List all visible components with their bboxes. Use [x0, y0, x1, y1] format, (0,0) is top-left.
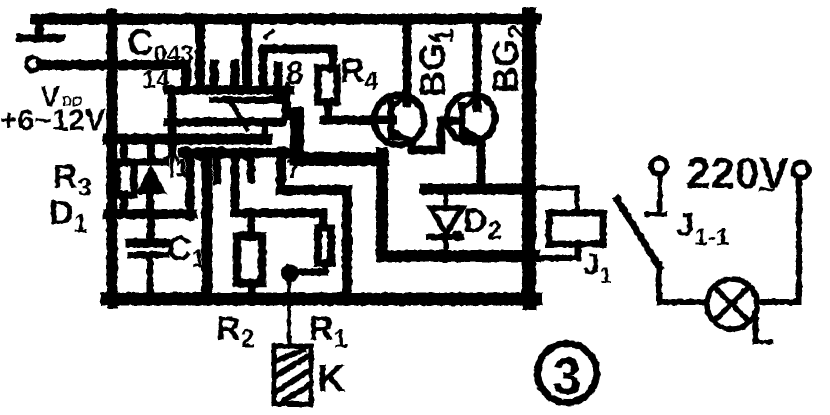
wire left terminal lead: [658, 175, 663, 213]
wire supply rail below IC: [108, 134, 267, 145]
svg-text:1: 1: [176, 155, 189, 181]
svg-text:+6~12V: +6~12V: [0, 104, 105, 137]
tick inside IC: [262, 122, 268, 141]
svg-text:14: 14: [142, 66, 170, 94]
wire pin 8 to R4: [263, 49, 333, 88]
wire lamp to right terminal: [758, 178, 799, 302]
capacitor C1 lead bottom: [147, 258, 154, 297]
node D2 dot: [452, 231, 463, 242]
wire BG2 emitter drop: [477, 140, 486, 188]
svg-text:8: 8: [286, 55, 304, 91]
relay J1 coil box: [549, 213, 603, 244]
svg-text:L: L: [750, 309, 774, 353]
wire bus to R1/R2 feed: [235, 153, 323, 227]
resistor R4 lead top is pin8 wire; R4 body: [318, 68, 337, 102]
transistor Q1 BG1: [374, 95, 424, 145]
resistor R2 body: [237, 236, 262, 283]
terminal VDD circle: [26, 57, 40, 71]
resistor R4 lead bottom: [324, 102, 332, 116]
wire blade to lamp: [659, 264, 706, 302]
speck near BG1 top: [430, 36, 436, 40]
diode D1 lead top: [147, 142, 155, 160]
wire BG1 emitter to BG2 base: [412, 121, 461, 150]
wire R4 to BG1 base: [324, 116, 392, 125]
pin stub 8 right thin: [286, 84, 291, 118]
switch J1-1 blade: [617, 199, 660, 268]
resistor R2 lead top: [247, 213, 255, 237]
battery plate bar: [20, 34, 61, 42]
wire top supply rail: [36, 14, 536, 25]
speck above pin8 wire: [266, 31, 273, 37]
svg-text:~: ~: [757, 171, 776, 207]
pin stub below bus short: [213, 155, 221, 181]
wire left border of circuit box: [107, 14, 118, 303]
switch fixed contact foot: [647, 212, 665, 217]
wire staircase down to relay feed: [382, 153, 534, 256]
terminal 220V right circle: [793, 162, 809, 178]
wire relay bottom lead: [536, 244, 578, 258]
pin stub top s5: [274, 66, 283, 92]
node pin dots on bus: [179, 146, 288, 161]
diode D2 cathode bar: [429, 234, 461, 240]
svg-text:K: K: [317, 357, 346, 401]
wire mid node R3 D1 C1: [108, 209, 192, 219]
diode D2 anode lead: [444, 194, 449, 209]
wire BG1 collector: [403, 19, 412, 102]
diode D2 triangle: [431, 208, 462, 234]
capacitor C1 plate top: [130, 239, 166, 248]
battery stub wire: [35, 19, 44, 32]
op-amp U1 C043 IC body: [168, 90, 290, 150]
resistor R1 body: [318, 228, 331, 263]
diode D1 triangle: [137, 166, 165, 193]
wire pin 7 to bottom: [281, 153, 347, 297]
wire ground vertical to bottom border: [202, 153, 213, 297]
pin 1 arrow mark: [165, 150, 177, 176]
pin stub top s2: [210, 64, 219, 90]
wire right border of circuit box: [522, 14, 536, 303]
diode D1 cathode bar: [136, 159, 166, 166]
wire relay top feed: [536, 188, 577, 212]
pin stub below bus short 2: [247, 155, 255, 179]
resistor R3 body: [117, 162, 134, 195]
wire IC right elbow: [297, 114, 382, 159]
wire drop A from rail: [195, 19, 205, 84]
wire BG2 collector: [473, 19, 482, 108]
resistor R3 leads: [120, 142, 128, 163]
pin stub top s3: [231, 64, 240, 90]
wire VDD to pin 14: [41, 65, 186, 88]
capacitor C1 plate bottom: [131, 252, 166, 259]
wire bottom border of circuit box: [107, 293, 536, 306]
wire dot to K plate: [287, 273, 291, 346]
diode D2 lead bottom: [444, 237, 449, 251]
capacitor C1 lead top: [147, 214, 155, 240]
wire pin 1 drop: [186, 153, 195, 216]
wire D2 top rail: [425, 184, 523, 195]
lamp L circle: [707, 279, 757, 329]
terminal 220V left circle: [651, 158, 667, 174]
touch plate K: [274, 346, 311, 404]
svg-text:7: 7: [286, 154, 301, 184]
transistor Q2 BG2: [447, 94, 495, 142]
svg-text:3: 3: [553, 348, 582, 406]
wire drop B from rail: [242, 19, 252, 88]
resistor R1 lead bottom: [292, 263, 325, 272]
figure number 3 circled: [538, 344, 597, 407]
squiggle inside IC: [229, 99, 247, 129]
wire bus with pin dots: [183, 148, 290, 158]
node junction dot to K: [281, 264, 299, 282]
resistor R2 lead bottom: [248, 283, 256, 297]
diode D1 lead bottom: [146, 193, 154, 214]
